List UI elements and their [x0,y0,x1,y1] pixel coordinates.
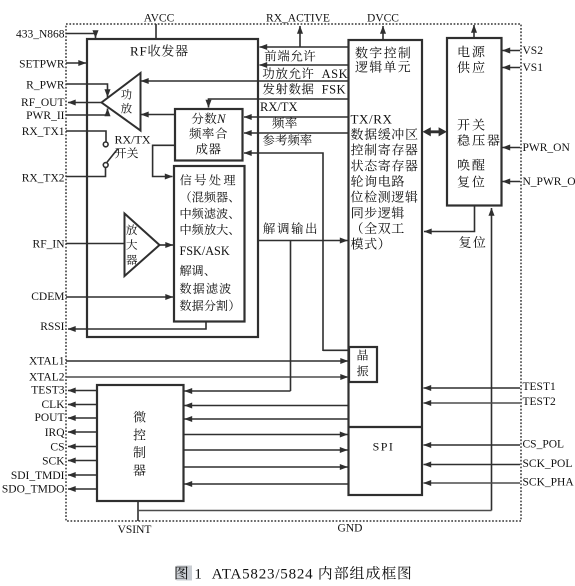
svg-text:VSINT: VSINT [118,524,152,536]
svg-text:逻辑单元: 逻辑单元 [355,57,412,76]
svg-text:器: 器 [126,252,138,268]
svg-text:成器: 成器 [195,140,221,158]
svg-text:RF_IN: RF_IN [33,239,66,251]
svg-text:XTAL2: XTAL2 [29,372,65,384]
svg-text:PWR_II: PWR_II [26,110,65,122]
svg-text:CDEM: CDEM [31,291,64,303]
svg-text:SCK_POL: SCK_POL [523,458,573,470]
svg-text:参考频率: 参考频率 [262,130,313,148]
svg-text:RX/TX: RX/TX [260,97,298,115]
svg-text:稳压器: 稳压器 [457,130,502,149]
svg-text:RX_ACTIVE: RX_ACTIVE [266,13,330,25]
svg-text:中频放大、: 中频放大、 [180,221,241,238]
svg-text:RF收发器: RF收发器 [130,41,189,60]
svg-text:N_PWR_ON: N_PWR_ON [523,176,575,188]
svg-text:数据滤波: 数据滤波 [180,280,233,297]
svg-text:振: 振 [356,363,368,380]
svg-text:VS1: VS1 [523,62,544,74]
svg-text:发射数据 FSK: 发射数据 FSK [262,80,346,98]
svg-text:PWR_ON: PWR_ON [523,142,571,154]
svg-text:大: 大 [126,237,138,253]
svg-text:微: 微 [133,407,146,426]
svg-text:SDO_TMDO: SDO_TMDO [2,484,65,496]
svg-text:CS: CS [50,441,64,453]
svg-text:频率: 频率 [272,114,298,132]
svg-text:（混频器、: （混频器、 [180,189,241,206]
svg-text:SETPWR: SETPWR [19,58,65,70]
svg-text:433_N868: 433_N868 [16,29,65,41]
svg-text:POUT: POUT [34,412,64,424]
svg-text:VS2: VS2 [523,45,544,57]
svg-text:解调、: 解调、 [180,262,217,279]
svg-text:IRQ: IRQ [45,427,66,439]
svg-text:DVCC: DVCC [367,13,399,25]
svg-text:放: 放 [126,222,138,238]
svg-text:TEST1: TEST1 [523,381,556,393]
svg-text:CS_POL: CS_POL [523,439,565,451]
svg-text:RX_TX2: RX_TX2 [22,173,65,185]
svg-text:SPI: SPI [373,440,395,454]
svg-text:数据分割）: 数据分割） [180,297,241,314]
svg-text:解调输出: 解调输出 [263,219,319,237]
svg-text:放: 放 [121,101,133,117]
svg-text:供应: 供应 [457,57,487,76]
svg-text:晶: 晶 [356,347,368,364]
svg-text:图 1 ATA5823/5824 内部组成框图: 图 1 ATA5823/5824 内部组成框图 [174,563,413,584]
svg-text:RX_TX1: RX_TX1 [22,126,65,138]
svg-text:开关: 开关 [115,145,139,162]
svg-text:FSK/ASK: FSK/ASK [180,242,230,259]
svg-text:SDI_TMDI: SDI_TMDI [11,470,65,482]
svg-text:TEST2: TEST2 [523,396,556,408]
svg-text:GND: GND [338,523,363,535]
svg-text:中频滤波、: 中频滤波、 [180,205,241,222]
svg-text:模式）: 模式） [351,234,392,253]
svg-text:XTAL1: XTAL1 [29,355,65,367]
svg-text:控: 控 [133,424,146,443]
svg-text:器: 器 [133,460,146,479]
svg-text:AVCC: AVCC [144,13,175,25]
svg-text:制: 制 [133,442,146,461]
svg-text:CLK: CLK [42,399,66,411]
svg-text:前端允许: 前端允许 [264,47,316,65]
svg-text:RF_OUT: RF_OUT [21,97,64,109]
svg-text:R_PWR: R_PWR [26,79,65,91]
svg-text:复位: 复位 [457,172,487,191]
svg-text:信号处理: 信号处理 [180,172,239,189]
svg-text:SCK: SCK [42,455,65,467]
svg-text:RSSI: RSSI [40,321,64,333]
svg-text:复位: 复位 [459,232,488,251]
svg-text:TEST3: TEST3 [31,385,64,397]
svg-text:SCK_PHA: SCK_PHA [523,477,575,489]
